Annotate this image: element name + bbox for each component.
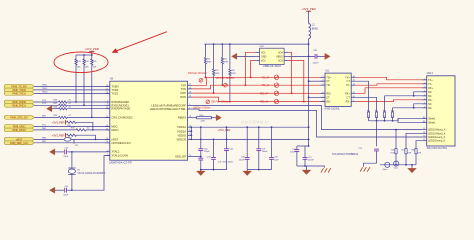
svg-text:R30: R30	[215, 70, 218, 72]
svg-text:3: 3	[424, 86, 425, 88]
svg-text:RD_N: RD_N	[260, 100, 268, 104]
svg-text:I/O3: I/O3	[278, 59, 283, 62]
svg-text:6: 6	[189, 130, 190, 132]
wire C75 to chassis ground	[364, 151, 377, 167]
pin 3 LED1/nINTnPMEnREGOFF (right)	[151, 103, 192, 107]
svg-text:TD-: TD-	[326, 84, 330, 87]
power port +3V3_PER (bead feed)	[301, 7, 315, 24]
transformer U11 body	[325, 71, 352, 111]
power port +3V3_PER MDIO pull-up	[52, 120, 66, 124]
svg-text:12: 12	[423, 128, 425, 130]
pin 9 RX- (U11 right)	[346, 100, 356, 103]
wire RMII_CRS_DV with series resistor R39, net label PA7	[34, 114, 110, 118]
ground (GND_EP)	[196, 170, 205, 176]
pin 22 RXN (right)	[180, 95, 192, 99]
svg-text:14: 14	[353, 84, 355, 86]
pin 1 TX+ (CN14)	[422, 78, 433, 81]
svg-text:10: 10	[423, 136, 425, 138]
svg-text:2: 2	[424, 82, 425, 84]
wire center tap 2	[309, 96, 325, 98]
pin 6 VDD2A (right)	[177, 129, 192, 133]
svg-text:LED1(Yellow)_A: LED1(Yellow)_A	[428, 129, 446, 132]
svg-text:PB11: PB11	[42, 84, 48, 86]
svg-text:CT: CT	[326, 96, 330, 99]
svg-text:270R: 270R	[417, 153, 422, 155]
svg-text:LAN8742A-CZ-TR: LAN8742A-CZ-TR	[109, 160, 132, 164]
svg-text:Diff Pair 100ohm: Diff Pair 100ohm	[216, 77, 235, 80]
wire RMII_TXD0 to TXD0, net label PB12	[34, 88, 110, 90]
svg-text:20: 20	[189, 87, 191, 89]
svg-text:C31: C31	[75, 145, 78, 147]
wire RMII_MDC to MDC, net label PC1	[34, 125, 110, 127]
svg-text:Short: Short	[383, 168, 388, 171]
pin 14 nINT/REFCLKO (left)	[105, 141, 130, 145]
wire to chassis ground 1	[307, 166, 325, 168]
svg-text:+3V3_PER: +3V3_PER	[301, 7, 315, 11]
svg-text:TXEN: TXEN	[111, 84, 118, 88]
svg-text:TX-: TX-	[428, 83, 432, 86]
inductor L2 BEAD	[309, 24, 319, 39]
capacitor C31 stub on nRST	[74, 139, 78, 147]
port RMII_RXD1	[4, 103, 34, 107]
svg-text:LED1(Yellow)_K: LED1(Yellow)_K	[428, 132, 446, 135]
svg-text:2: 2	[189, 107, 190, 109]
svg-text:RXN: RXN	[180, 95, 186, 99]
svg-text:USBLC6-4SC6: USBLC6-4SC6	[263, 64, 282, 68]
pin 21 TXP (right)	[181, 83, 192, 87]
resistor R53 75R bob-smith	[383, 110, 386, 120]
svg-text:R31: R31	[224, 58, 227, 60]
wire pull-up rail	[76, 54, 93, 56]
svg-text:LED2(Green)_A: LED2(Green)_A	[428, 136, 446, 139]
svg-text:9: 9	[189, 134, 190, 136]
pin 16 TXEN (left)	[105, 84, 118, 88]
red directive circle on TD_N wire	[224, 83, 228, 87]
svg-text:+3V3_PER: +3V3_PER	[52, 133, 65, 137]
wire RXN diff pair (red)	[192, 97, 325, 102]
svg-text:KMS-1102NL: KMS-1102NL	[325, 106, 341, 110]
ground arrow (RBIAS)	[216, 115, 221, 121]
svg-text:15: 15	[106, 138, 108, 140]
resistor R34 10K MDIO pull-up	[66, 121, 93, 131]
red annotation ellipse around pull-ups	[54, 52, 108, 73]
svg-text:12: 12	[106, 125, 108, 127]
svg-text:+3V3_PER: +3V3_PER	[52, 120, 65, 124]
svg-text:I/O2: I/O2	[261, 59, 266, 62]
svg-text:18pF: 18pF	[63, 156, 68, 158]
svg-text:TD_N: TD_N	[262, 83, 270, 87]
svg-text:1: 1	[189, 138, 190, 140]
red annotation arrow	[112, 32, 167, 53]
svg-text:NC: NC	[428, 103, 432, 106]
svg-text:RMII_REF_CLK: RMII_REF_CLK	[10, 141, 29, 145]
pin I/O3 (U38 right)	[278, 59, 288, 62]
capacitor C42 470pF	[198, 127, 210, 156]
svg-text:12K1: 12K1	[201, 121, 207, 123]
pin 8 NC (CN14)	[422, 106, 432, 109]
pin 6 RD+ (U11 left)	[321, 92, 332, 95]
svg-text:13: 13	[423, 132, 425, 134]
capacitor C40 below GND_EP	[198, 157, 203, 171]
svg-text:RX+: RX+	[345, 92, 350, 95]
pin 1 VDDCR (right)	[176, 137, 192, 141]
capacitor C46 100nF	[239, 127, 250, 169]
svg-text:Shield: Shield	[428, 117, 436, 120]
pin I/O1 (U38 left)	[255, 51, 266, 54]
svg-text:7: 7	[424, 102, 425, 104]
red directive circle on TXP wire	[199, 78, 203, 82]
svg-text:7: 7	[107, 100, 108, 102]
svg-text:6: 6	[323, 92, 324, 94]
svg-text:VDDCR: VDDCR	[176, 137, 186, 141]
svg-text:16: 16	[106, 85, 108, 87]
capacitor C19 100nF	[303, 146, 315, 166]
svg-text:49R9: 49R9	[207, 62, 212, 64]
svg-text:RD_P: RD_P	[260, 91, 268, 95]
svg-text:S2: S2	[423, 121, 425, 123]
svg-text:10: 10	[353, 96, 355, 98]
svg-text:11: 11	[353, 92, 355, 94]
jumper arc Short	[383, 162, 390, 171]
wire XTAL2 node	[71, 151, 110, 153]
svg-text:VBUS: VBUS	[276, 55, 283, 58]
svg-text:X3274-C200A-25.000MHz: X3274-C200A-25.000MHz	[77, 172, 106, 175]
wire RMII_RXD0 with series resistor R36 22R, net label PC4	[34, 100, 110, 104]
svg-text:R29: R29	[207, 58, 210, 60]
svg-text:10K: 10K	[77, 67, 81, 69]
wire bead node down to cap group 3	[297, 96, 310, 147]
svg-text:1: 1	[323, 76, 324, 78]
svg-text:8: 8	[107, 104, 108, 106]
svg-text:1uF_X5R_0603: 1uF_X5R_0603	[218, 162, 233, 164]
port RMII_REF_CLK	[4, 141, 34, 145]
svg-text:5: 5	[424, 94, 425, 96]
port RMII_MDC	[4, 125, 34, 129]
capacitor C43 1uF	[207, 139, 216, 170]
chassis ground (C75)	[360, 167, 370, 171]
pin 15 nRST (left)	[105, 137, 118, 141]
svg-text:R32: R32	[231, 70, 234, 72]
svg-text:TX-: TX-	[346, 84, 350, 87]
svg-text:10K: 10K	[85, 67, 89, 69]
connector CN14 RJ45 body	[427, 72, 455, 150]
ground arrow for C44	[50, 149, 55, 155]
pin 10 LED2(Green)_A (CN14)	[422, 136, 445, 139]
svg-text:6: 6	[424, 98, 425, 100]
wire RMII_REF_CLK to nINT/REFCLKO, net label PA1	[34, 140, 110, 143]
wire TXN diff pair (red)	[192, 85, 325, 89]
svg-text:MDIO: MDIO	[111, 128, 118, 132]
wire TXP diff pair (red)	[192, 77, 325, 85]
wire cable-side CT2 to bob-smith	[356, 97, 377, 112]
svg-text:14: 14	[106, 141, 108, 143]
resistor R33 10K0 nRST pull-up	[66, 134, 96, 140]
port RMII_MDIO	[4, 128, 34, 132]
wire RMII_RXD1 with series resistor R37 22R, net label PC5	[34, 103, 110, 107]
svg-text:100nF: 100nF	[239, 159, 246, 161]
net label RD_P with directive circle	[260, 91, 279, 95]
svg-text:LED2/nINTnPMEnADn/TSEL: LED2/nINTnPMEnADn/TSEL	[150, 107, 187, 111]
svg-text:4: 4	[424, 90, 425, 92]
pin 2 TX- (CN14)	[422, 82, 432, 85]
svg-text:PB13: PB13	[42, 91, 48, 93]
capacitor C45 18pF	[55, 186, 72, 196]
svg-text:TXN: TXN	[181, 87, 186, 91]
wire cap group 2 bottom rail	[247, 169, 271, 171]
wire RMII_MDIO with series resistor R35, net label PA2	[34, 127, 110, 131]
svg-text:TX+: TX+	[345, 76, 350, 79]
svg-text:RMII_RXD1: RMII_RXD1	[12, 103, 26, 107]
wire LED1 net from U9 to RJ45	[192, 106, 422, 131]
ground arrow for U38 GND pin	[232, 53, 256, 59]
svg-text:13: 13	[106, 128, 108, 130]
pin 2 LED2/nINTnPMEnADn/TSEL (right)	[150, 107, 192, 111]
pin 13 LED1(Yellow)_K (CN14)	[422, 132, 446, 135]
svg-text:100nF: 100nF	[308, 160, 315, 162]
wire RMII_TX_EN to TXEN, net label PB11	[34, 84, 110, 86]
wire RMII_TXD1 to TXD1, net label PB13	[34, 91, 110, 93]
wire TX+ to RJ45 (red)	[356, 77, 427, 80]
svg-text:Diff Pair 100ohm: Diff Pair 100ohm	[211, 101, 230, 104]
wire RX+ to RJ45 (red)	[356, 88, 427, 94]
pin 4 XTAL2 (left)	[105, 150, 120, 154]
resistor R54 75R bob-smith	[391, 110, 394, 120]
wire U38 I/O1 tap (red)	[245, 52, 256, 86]
pin 5 XTAL1/CLKIN (left)	[105, 154, 128, 158]
svg-text:11: 11	[106, 116, 108, 118]
svg-text:18pF: 18pF	[63, 194, 68, 196]
resistor R44 10K pull-up	[83, 55, 90, 105]
svg-text:XTAL1/CLKIN: XTAL1/CLKIN	[111, 154, 128, 158]
wire U38 I/O3 tap (red)	[289, 61, 305, 103]
pin S1 Shield (CN14)	[422, 117, 435, 120]
wire crystal bottom leg	[71, 174, 73, 191]
wire center tap 1	[309, 80, 325, 82]
svg-text:Diff Pair 100ohm: Diff Pair 100ohm	[188, 72, 207, 75]
svg-text:RMII_TXD1: RMII_TXD1	[12, 92, 26, 96]
svg-text:RD-: RD-	[326, 101, 331, 104]
pin I/O2 (U38 left)	[255, 59, 266, 62]
resistor R40 12K1 on RBIAS	[192, 115, 216, 123]
resistor R31 49R9 termination TXN	[221, 44, 228, 86]
wire cap group 3 bottom rail	[297, 165, 307, 167]
wire VDD pins to vertical bus	[190, 126, 192, 140]
wire GND_EP junction	[192, 156, 202, 158]
wire RJ45 shield pins to rail	[398, 118, 427, 122]
resistor R52 75R bob-smith	[375, 110, 378, 120]
pin 2 CT (U11 left)	[321, 80, 331, 83]
pin 8 RD- (U11 left)	[321, 100, 331, 103]
svg-text:22: 22	[189, 96, 191, 98]
pin 12 LED1(Yellow)_A (CN14)	[422, 128, 446, 131]
wire termination 3V3 rail	[204, 43, 309, 45]
pin 8 RXD1/MODE1 (left)	[105, 103, 129, 107]
svg-text:TD_P: TD_P	[262, 75, 270, 79]
svg-text:I/O4: I/O4	[278, 51, 283, 54]
pin 1 TD+ (U11 left)	[321, 76, 332, 79]
svg-text:49R9: 49R9	[231, 73, 236, 75]
ground arrow on RXER row	[47, 106, 52, 112]
svg-text:9: 9	[353, 100, 354, 102]
red directive circle on RD_N wire	[206, 100, 210, 104]
pin 17 TXD0 (left)	[105, 88, 118, 92]
pin 13 MDIO (left)	[105, 128, 118, 132]
resistor R29 49R9 termination TXP	[204, 44, 211, 78]
svg-text:S1: S1	[423, 117, 425, 119]
svg-text:VDD2A: VDD2A	[177, 129, 186, 133]
svg-text:RXP: RXP	[180, 91, 186, 95]
svg-text:nRST: nRST	[111, 137, 118, 141]
svg-text:RXER/PHYAD0: RXER/PHYAD0	[111, 107, 130, 111]
svg-text:I/O1: I/O1	[261, 51, 266, 54]
pin 16 TX+ (U11 right)	[345, 76, 355, 79]
pin GND (U38 left)	[255, 55, 266, 58]
svg-text:TC1206KKX7RDBB102: TC1206KKX7RDBB102	[332, 153, 359, 156]
svg-text:+3V3_PER: +3V3_PER	[218, 128, 231, 132]
svg-text:RXD1/MODE1: RXD1/MODE1	[111, 103, 129, 107]
net label TD_P with directive circle	[262, 75, 279, 79]
ground (LED rail)	[408, 165, 417, 173]
wire rail down to C75	[376, 121, 378, 147]
svg-text:100nF: 100nF	[313, 62, 320, 64]
wire RJ45 NC pins 4,5 to bob-smith	[385, 92, 427, 112]
svg-text:100nF: 100nF	[290, 151, 297, 153]
svg-text:KRJ-C84.2GYZNL: KRJ-C84.2GYZNL	[427, 147, 448, 150]
pin 12 MDC (left)	[105, 124, 117, 128]
svg-text:49R9: 49R9	[224, 62, 229, 64]
svg-text:CRS_DV/MODE2: CRS_DV/MODE2	[111, 115, 133, 119]
resistor R46 270R LED1	[390, 130, 397, 165]
svg-text:24: 24	[189, 116, 191, 118]
port RMII_CRS_DV	[4, 116, 34, 120]
svg-text:RD+: RD+	[326, 92, 332, 95]
svg-text:NC: NC	[428, 107, 432, 110]
svg-text:16: 16	[353, 76, 355, 78]
port nRST	[4, 138, 34, 142]
capacitor C39 10nF	[269, 127, 279, 169]
wire bob-smith common rail	[369, 120, 399, 122]
pin 4 NC (CN14)	[422, 90, 432, 93]
svg-text:Open: Open	[394, 168, 399, 170]
pin 23 RXP (right)	[180, 91, 192, 95]
pin 11 RX+ (U11 right)	[345, 92, 356, 95]
svg-text:RX-: RX-	[346, 101, 350, 104]
resistor R48 270R LED2 K	[411, 141, 422, 165]
pin 11 CRS_DV/MODE2 (left)	[105, 115, 133, 119]
svg-text:10nF: 10nF	[274, 159, 279, 161]
svg-text:NC: NC	[428, 95, 432, 98]
svg-text:RMII_CRS_DV: RMII_CRS_DV	[10, 116, 28, 120]
svg-text:8: 8	[323, 100, 324, 102]
pin 11 LED2(Green)_K (CN14)	[422, 139, 445, 142]
pin S2 Shield (CN14)	[422, 121, 435, 124]
svg-text:NC: NC	[428, 91, 432, 94]
svg-text:Oy/2004M ls: Oy/2004M ls	[241, 119, 269, 124]
pin 10 RXER/PHYAD0 (left)	[105, 107, 130, 111]
wire VDD1A 3V3 rail	[192, 126, 309, 128]
resistor R32 49R9 termination RXN	[229, 44, 236, 102]
svg-text:VDDIO: VDDIO	[177, 133, 186, 137]
capacitor C70 100nF	[290, 146, 299, 166]
svg-text:10: 10	[106, 107, 108, 109]
ground (cap group 2)	[243, 170, 252, 176]
pin 25 GND_EP (right)	[175, 154, 192, 158]
wire LED2 net from U9 to RJ45	[192, 109, 422, 137]
svg-text:R54: R54	[391, 110, 394, 112]
pin 7 NC (CN14)	[422, 102, 432, 105]
capacitor C47 100nF	[256, 127, 268, 169]
pin 24 RBIAS (right)	[178, 116, 192, 120]
svg-text:TXP: TXP	[181, 83, 186, 87]
svg-text:+3V3_PER: +3V3_PER	[85, 47, 99, 51]
wire XTAL1 node	[72, 156, 110, 191]
ground (cap group 3)	[302, 166, 311, 175]
resistor R51 75R bob-smith	[367, 110, 370, 120]
svg-text:GND: GND	[261, 55, 267, 58]
svg-text:23: 23	[189, 92, 191, 94]
svg-text:25: 25	[189, 155, 191, 157]
pin 19 VDD1A (right)	[177, 125, 192, 129]
svg-text:R52: R52	[375, 110, 378, 112]
power port +3V3_PER nRST pull-up	[52, 133, 66, 137]
resistor R41 10K pull-up	[75, 55, 82, 102]
svg-text:21: 21	[189, 84, 191, 86]
svg-text:100nF: 100nF	[262, 151, 269, 153]
svg-text:RBIAS: RBIAS	[178, 116, 186, 120]
svg-text:MDC: MDC	[111, 124, 117, 128]
svg-text:TXD0: TXD0	[111, 88, 118, 92]
svg-text:1: 1	[424, 78, 425, 80]
wire crystal top leg	[71, 152, 73, 168]
crystal X4 25.000MHz	[68, 168, 106, 175]
jumper arc Open	[394, 161, 399, 170]
svg-text:XTAL2: XTAL2	[111, 150, 120, 154]
svg-text:3: 3	[323, 84, 324, 86]
svg-text:Shield: Shield	[428, 121, 436, 124]
pin 7 RXD0/MODE0 (left)	[105, 100, 129, 104]
svg-text:TX+: TX+	[428, 79, 433, 82]
wire RXER with series resistor R38, from ground arrow	[52, 106, 110, 110]
svg-text:BEAD: BEAD	[312, 27, 319, 30]
pin 10 CT (U11 right)	[347, 96, 356, 99]
svg-text:PB12: PB12	[42, 88, 48, 90]
pin 3 RX+ (CN14)	[422, 86, 433, 89]
wire RJ45 NC pins 7,8 to bob-smith	[393, 104, 427, 112]
svg-text:R47: R47	[401, 149, 404, 151]
ground arrow for C45	[50, 187, 55, 193]
svg-text:CT: CT	[347, 80, 351, 83]
svg-text:270R: 270R	[407, 153, 412, 155]
capacitor C48 100nF	[313, 50, 320, 64]
wire cable-side CT1 to bob-smith	[356, 81, 369, 112]
svg-text:470pF: 470pF	[204, 151, 211, 153]
pin 18 TXD1 (left)	[105, 91, 118, 95]
resistor R30 49R9 termination RXP	[213, 44, 220, 94]
svg-text:7: 7	[323, 96, 324, 98]
wire U38 I/O2 tap (red)	[250, 61, 255, 79]
net label TD_N with directive circle	[262, 83, 279, 87]
wire U38 I/O4 tap (red)	[289, 52, 293, 94]
pin 3 TD- (U11 left)	[321, 84, 331, 87]
svg-text:CT: CT	[326, 80, 330, 83]
IC U38 USBLC6-4SC6 body	[260, 46, 285, 68]
wire nRST to IC with inline ellipse symbol	[34, 136, 110, 141]
svg-text:GND_EP: GND_EP	[175, 154, 186, 158]
svg-text:2: 2	[323, 80, 324, 82]
pin VBUS (U38 right)	[276, 55, 288, 58]
pin 20 TXN (right)	[181, 87, 192, 91]
svg-text:18: 18	[106, 92, 108, 94]
